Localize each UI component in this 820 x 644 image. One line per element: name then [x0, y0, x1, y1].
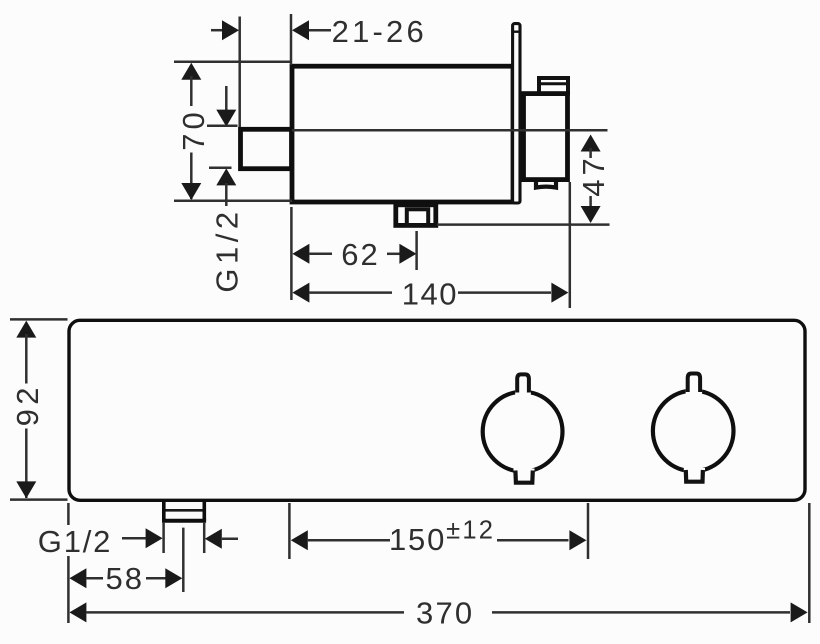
dim 47: upper stem [589, 148, 592, 158]
bottom reference line for 47 dim [437, 223, 610, 226]
top view: hex connection nut under body [396, 205, 436, 226]
dim 58: right arrow [165, 568, 182, 588]
top view: handle top tab [537, 78, 570, 94]
dim 92: bottom extension line [10, 498, 68, 501]
G1/2 fitting: left-pointing arrow tail [222, 538, 238, 541]
top view: square hose outlet on left [241, 129, 292, 168]
G1/2 outlet: lower tick [209, 167, 232, 170]
dim 21-26: extension line body face [290, 14, 293, 65]
dim 92: down arrow [16, 481, 36, 498]
dim 62: right tail [387, 253, 400, 256]
front view: right knob bottom tab [684, 468, 705, 482]
dim 21-26: left tail [211, 29, 223, 32]
G1/2 outlet: down arrow [216, 110, 236, 127]
dim 370: right arrow [791, 602, 808, 622]
dim 62: left tail [309, 253, 332, 256]
dim 140: right arrow [551, 283, 568, 303]
front view: faceplate rounded rectangle [69, 320, 805, 500]
svg-text:G1/2: G1/2 [38, 524, 112, 559]
dim 92: upper stem [25, 334, 28, 384]
top view: wall escutcheon plate [512, 24, 522, 203]
svg-text:58: 58 [106, 561, 144, 596]
dim 58: left tail [86, 577, 103, 580]
dim 62/140: shared left extension line [290, 207, 293, 300]
dim 140: right extension line [569, 182, 572, 308]
front view: hose outlet fitting body [162, 501, 206, 521]
dim 70: bottom extension line [174, 199, 292, 202]
dim 150: left extension line [288, 503, 291, 559]
dim 47: lower stem [589, 196, 592, 207]
dim 150: right extension line [587, 503, 590, 559]
dim 92: up arrow [16, 321, 36, 338]
G1/2 outlet: up arrow [216, 168, 236, 185]
dim 150: left arrow [291, 530, 308, 550]
dim 47: down arrow [581, 206, 601, 223]
dim 70: upper stem [190, 76, 193, 106]
G1/2 outlet: lower stem [225, 183, 228, 206]
G1/2 outlet: upper tick [207, 125, 238, 128]
svg-text:140: 140 [402, 276, 458, 311]
dim 58/370: shared left extension line lower part [67, 556, 70, 623]
G1/2 fitting: left-pointing arrow [205, 529, 222, 549]
dim 70: up arrow [181, 63, 201, 80]
G1/2 fitting: right-pointing arrow tail [122, 537, 147, 540]
front view: fitting thread extension line left [162, 523, 165, 553]
dim 92: top extension line [10, 318, 68, 321]
front view: left knob bottom tab [514, 469, 535, 483]
dim 140: left tail [309, 291, 392, 294]
dim 21-26: right tail [309, 29, 331, 32]
dim 58: left arrow [69, 568, 86, 588]
front view: right knob circle [653, 391, 734, 472]
dim 150: right tail [497, 539, 569, 542]
dim 92: lower stem [25, 429, 28, 499]
svg-text:47: 47 [576, 154, 611, 196]
front view: right knob top stem [686, 374, 702, 395]
front view: left knob top stem [515, 374, 531, 394]
dim 150: right arrow [569, 530, 586, 550]
dim 21-26: left-pointing arrow [292, 20, 309, 40]
top view: handle bottom tab [536, 180, 556, 188]
dim 58/370: shared left extension line upper part [67, 503, 70, 525]
dim 140: left arrow [292, 283, 309, 303]
dim 370: right extension line [808, 503, 811, 623]
G1/2 outlet: upper stem [225, 86, 228, 112]
svg-text:21-26: 21-26 [332, 14, 427, 49]
dim 70: down arrow [181, 183, 201, 200]
dim 370: left arrow [69, 602, 86, 622]
dim 150: left tail [308, 539, 390, 542]
centerline of handle axis [292, 129, 608, 132]
dim 58: fitting center extension line [182, 528, 185, 592]
svg-text:370: 370 [416, 595, 474, 630]
dim 21-26: extension line wall face [238, 17, 241, 128]
dim 140: right tail [458, 291, 551, 294]
top view: handle body [524, 94, 568, 180]
dim 370: right tail [492, 611, 790, 614]
G1/2 fitting: right-pointing arrow [146, 528, 163, 548]
dim 47: up arrow [581, 135, 601, 152]
front view: fitting thread extension line right [203, 523, 206, 553]
front view: left knob circle [483, 392, 563, 472]
svg-text:G1/2: G1/2 [210, 207, 245, 292]
dim 62: left arrow [292, 244, 309, 264]
svg-text:92: 92 [10, 383, 45, 426]
top view: valve body outline [292, 66, 513, 202]
dim 370: left tail [86, 611, 404, 614]
dim 62: right arrow [399, 244, 416, 264]
dim 21-26: right-pointing arrow [222, 20, 239, 40]
dim 62: right extension line [415, 231, 418, 270]
dim 58: right tail [146, 577, 166, 580]
dim 70: lower stem [190, 153, 193, 200]
dim 70: top extension line [174, 61, 292, 64]
svg-text:70: 70 [176, 108, 211, 150]
svg-text:62: 62 [341, 237, 379, 272]
